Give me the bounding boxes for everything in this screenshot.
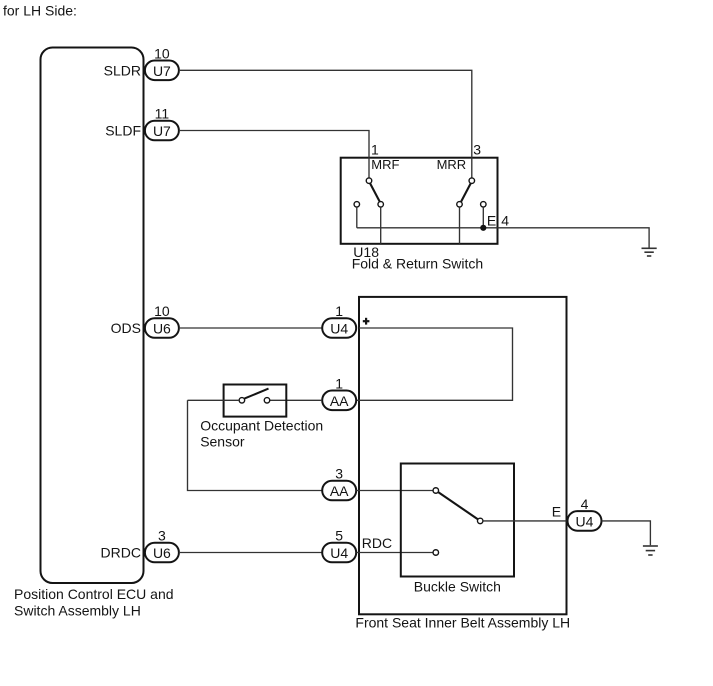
connector U6 pin 10 (ODS) <box>145 303 179 338</box>
switch MRR: blade <box>461 183 471 201</box>
wire buckle middle contact to U4 pin 4 <box>483 520 567 522</box>
svg-text:Switch Assembly LH: Switch Assembly LH <box>14 603 141 619</box>
occupant detection sensor: right contact <box>264 398 270 404</box>
connector U6 pin 3 (DRDC) <box>145 528 179 563</box>
wire MRR lower-right contact down to E bus junction <box>482 207 484 228</box>
svg-text:10: 10 <box>154 303 170 319</box>
ground (bottom right) <box>643 546 658 555</box>
svg-text:4: 4 <box>581 496 589 512</box>
svg-text:E: E <box>487 213 496 229</box>
svg-text:1: 1 <box>335 303 343 319</box>
wire SLDF to fold switch pin 1 <box>179 131 369 157</box>
connector U4 pin 1 (+) <box>322 303 356 338</box>
svg-text:Occupant Detection: Occupant Detection <box>200 418 323 434</box>
connector U4 pin 4 (E) <box>568 496 602 531</box>
switch MRR: lower-left contact <box>457 202 463 208</box>
buckle switch: blade <box>438 492 477 519</box>
wire DRDC to U4 pin 5 <box>179 552 322 554</box>
occupant detection sensor: blade <box>244 389 268 399</box>
svg-text:3: 3 <box>158 528 166 544</box>
connector U7 pin 11 (SLDF) <box>145 106 179 141</box>
occupant detection sensor: left contact <box>239 398 245 404</box>
fold & return switch U18 box <box>341 158 498 244</box>
svg-text:1: 1 <box>371 142 379 158</box>
wire ODS to U4 pin 1 <box>179 327 322 329</box>
svg-text:10: 10 <box>154 45 170 61</box>
svg-text:3: 3 <box>335 466 343 482</box>
svg-text:AA: AA <box>330 483 349 499</box>
switch MRF: lower-left contact <box>354 202 360 208</box>
svg-text:MRF: MRF <box>371 157 399 172</box>
connector U4 pin 5 (RDC) <box>322 528 356 563</box>
wire SLDR to fold switch pin 3 <box>179 70 472 156</box>
svg-text:Front Seat Inner Belt Assembly: Front Seat Inner Belt Assembly LH <box>355 615 570 631</box>
ground (top right) <box>642 248 657 256</box>
svg-text:U4: U4 <box>330 321 348 337</box>
wire AA pin1 to occupant detection sensor <box>270 399 322 401</box>
svg-text:SLDR: SLDR <box>104 62 141 78</box>
switch MRF: top contact <box>366 178 372 184</box>
buckle switch: lower contact <box>433 550 439 556</box>
label: Position Control ECU and Switch Assembly LH <box>14 586 174 619</box>
wire AA pin3 to buckle switch top contact <box>356 490 433 492</box>
svg-text:MRR: MRR <box>437 157 467 172</box>
svg-text:ODS: ODS <box>111 320 141 336</box>
svg-text:DRDC: DRDC <box>101 545 141 561</box>
svg-text:Fold & Return Switch: Fold & Return Switch <box>352 255 484 271</box>
svg-text:Sensor: Sensor <box>200 434 245 450</box>
wire MRF lower-left contact down to E bus <box>356 207 358 228</box>
switch MRF: lower-right contact <box>378 202 384 208</box>
svg-text:AA: AA <box>330 393 349 409</box>
ECU box: Position Control ECU and Switch Assembly LH <box>41 48 144 584</box>
svg-text:4: 4 <box>501 213 509 229</box>
switch MRR: top contact <box>469 178 475 184</box>
svg-text:5: 5 <box>335 528 343 544</box>
svg-text:E: E <box>552 504 561 520</box>
svg-text:Position Control ECU and: Position Control ECU and <box>14 586 174 602</box>
wire E bus to ground (top right) <box>357 228 649 248</box>
label + <box>363 318 370 325</box>
buckle switch: middle-right contact <box>477 518 483 524</box>
svg-text:U6: U6 <box>153 321 171 337</box>
switch MRF: blade <box>370 183 380 201</box>
buckle switch box <box>401 464 514 577</box>
svg-text:U6: U6 <box>153 545 171 561</box>
wire sensor to left drop <box>188 399 240 401</box>
svg-text:3: 3 <box>473 142 481 158</box>
buckle switch: top-left contact <box>433 488 439 494</box>
svg-text:RDC: RDC <box>362 535 392 551</box>
svg-text:Buckle Switch: Buckle Switch <box>414 579 501 595</box>
svg-text:SLDF: SLDF <box>105 123 141 139</box>
svg-text:11: 11 <box>155 106 170 122</box>
label Occupant Detection Sensor <box>200 418 323 450</box>
wire left drop down to AA pin3 row <box>188 400 323 490</box>
occupant detection sensor box <box>224 385 287 417</box>
front seat inner belt assembly LH box <box>359 297 567 614</box>
svg-text:U4: U4 <box>330 545 348 561</box>
switch MRR: lower-right contact <box>481 202 487 208</box>
wire loop inside belt box (U4 pin1 to AA pin1) <box>356 328 512 400</box>
junction node E <box>480 225 486 231</box>
wire pin1 inside box to MRF top contact <box>368 157 370 178</box>
svg-text:U4: U4 <box>576 514 594 530</box>
svg-text:U7: U7 <box>153 63 171 79</box>
connector AA pin 3 <box>322 466 356 501</box>
connector U7 pin 10 (SLDR) <box>145 45 179 80</box>
svg-text:U7: U7 <box>153 123 171 139</box>
wire U4 pin4 to ground (bottom right) <box>602 521 651 545</box>
wire pin3 inside box to MRR top contact <box>471 157 473 178</box>
svg-text:for LH Side:: for LH Side: <box>3 2 77 18</box>
connector AA pin 1 <box>322 375 356 410</box>
wire U4 pin5 to buckle switch lower contact <box>356 552 433 554</box>
wire MRF lower-right contact to box bottom <box>380 207 382 244</box>
wire MRR lower-left contact to box bottom <box>459 207 461 244</box>
svg-text:1: 1 <box>335 375 343 391</box>
